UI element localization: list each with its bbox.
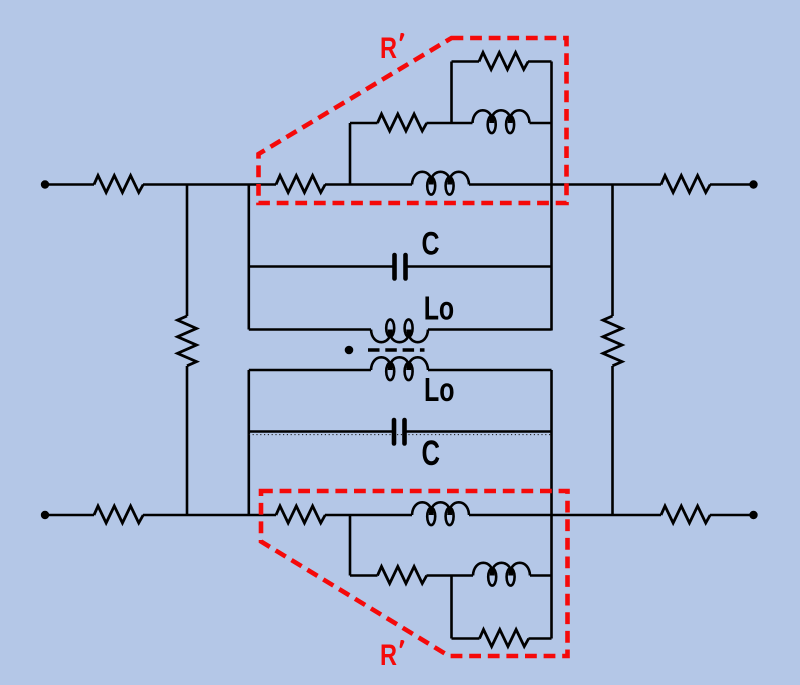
wire bottom inner branch: [452, 637, 552, 640]
polarity dot: [345, 346, 354, 355]
resistor bottom-right series: [661, 506, 710, 523]
wire right inner rail upper: [550, 62, 553, 331]
resistor top-left series: [94, 176, 143, 193]
wire bottom C branch: [249, 430, 552, 433]
inductor Lo lower: [371, 357, 428, 380]
capacitor C bottom: [394, 420, 405, 444]
terminal dot bottom-left: [41, 511, 49, 519]
wire top middle branch: [350, 122, 552, 125]
dotted guide under bottom C branch: [249, 434, 552, 436]
resistor top-right series: [661, 176, 710, 193]
wire lower Lo branch: [249, 369, 552, 372]
terminal dot bottom-right: [749, 511, 757, 519]
wire riser top R' main-to-middle: [349, 123, 352, 185]
svg-text:Lo: Lo: [424, 371, 455, 408]
resistor R' bottommost: [480, 630, 529, 647]
resistor right shunt: [603, 316, 622, 366]
label R' top: [380, 32, 404, 65]
wire riser bottom R' main-to-middle: [349, 515, 352, 576]
terminal dot top-right: [749, 180, 757, 188]
inductor R' top middle: [473, 110, 530, 133]
svg-text:Lo: Lo: [424, 290, 455, 327]
label R' bottom: [380, 639, 404, 672]
wire riser top middle-to-top: [450, 62, 453, 124]
wire bottom main line: [45, 514, 752, 517]
resistor R' bottom middle: [378, 567, 427, 584]
inductor R' bottom middle: [473, 563, 530, 586]
resistor R' top main: [276, 176, 325, 193]
R' region outline bottom: [261, 491, 568, 656]
inductor R' bottom main: [412, 502, 469, 525]
svg-text:R: R: [380, 32, 397, 65]
svg-text:C: C: [422, 225, 440, 261]
wire right inner rail lower: [550, 370, 553, 639]
wire bottom middle branch: [350, 574, 552, 577]
terminal dot top-left: [41, 180, 49, 188]
wire upper Lo branch: [249, 328, 552, 331]
inductor R' top main: [412, 172, 469, 195]
wire top main line: [45, 183, 752, 186]
resistor bottom-left series: [94, 506, 143, 523]
wire left inner rail upper: [248, 185, 251, 330]
coupling dashed line: [368, 348, 425, 352]
wire top inner branch: [452, 60, 552, 63]
resistor R' topmost: [479, 53, 528, 70]
svg-text:C: C: [422, 434, 441, 473]
wire riser bottom middle-to-bottom: [450, 576, 453, 639]
svg-text:R: R: [380, 639, 397, 672]
R' region outline top: [259, 38, 567, 203]
resistor R' top middle: [378, 114, 427, 131]
wire left outer rail: [186, 185, 189, 516]
wire right outer rail: [611, 185, 614, 516]
wire top C branch: [249, 265, 552, 268]
resistor left shunt: [178, 316, 197, 366]
inductor Lo upper: [371, 319, 428, 342]
capacitor C top: [395, 255, 406, 279]
wire left inner rail lower: [248, 370, 251, 515]
resistor R' bottom main: [276, 506, 325, 523]
